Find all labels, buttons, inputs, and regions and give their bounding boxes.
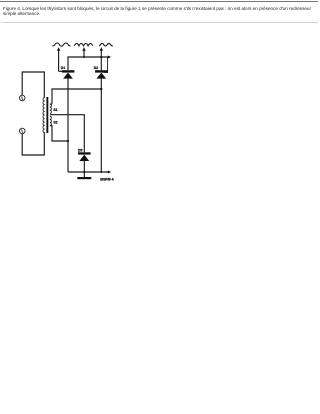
svg-text:S1: S1 [53, 108, 57, 112]
svg-text:D5: D5 [78, 148, 82, 152]
svg-text:D1: D1 [61, 66, 65, 70]
svg-text:BSF/8 4: BSF/8 4 [100, 177, 114, 182]
svg-text:D2: D2 [94, 66, 98, 70]
svg-text:S2: S2 [53, 121, 57, 125]
